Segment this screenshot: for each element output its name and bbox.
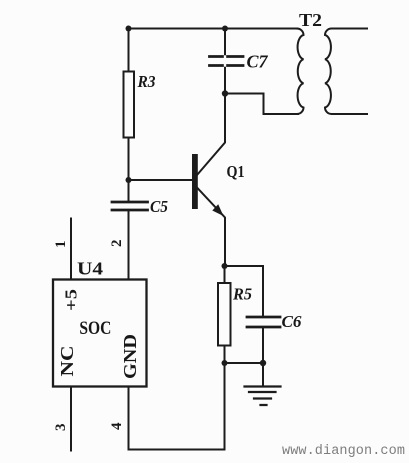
svg-text:+5: +5	[62, 289, 81, 311]
svg-text:1: 1	[53, 241, 69, 249]
svg-text:4: 4	[109, 422, 125, 430]
svg-text:C7: C7	[247, 52, 269, 72]
svg-text:R5: R5	[232, 285, 252, 304]
svg-text:T2: T2	[299, 10, 322, 30]
svg-text:Q1: Q1	[227, 162, 245, 181]
svg-text:C5: C5	[150, 197, 168, 216]
svg-text:SOC: SOC	[79, 318, 111, 339]
svg-text:www.diangon.com: www.diangon.com	[282, 444, 405, 459]
svg-text:NC: NC	[57, 346, 77, 377]
svg-text:3: 3	[53, 424, 69, 432]
svg-text:2: 2	[109, 240, 125, 248]
svg-text:GND: GND	[120, 334, 140, 379]
svg-text:R3: R3	[137, 72, 156, 91]
svg-text:C6: C6	[282, 312, 302, 331]
svg-text:U4: U4	[77, 259, 103, 279]
